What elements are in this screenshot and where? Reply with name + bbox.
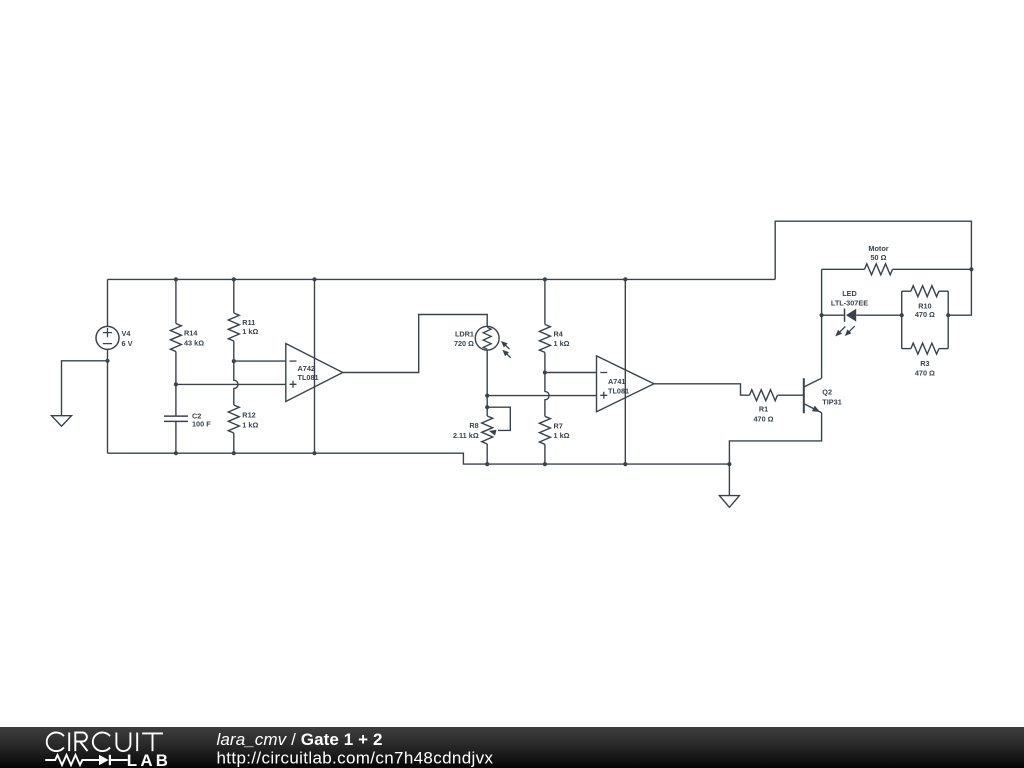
wire A742 supply [314, 279, 316, 453]
svg-text:A741: A741 [608, 377, 625, 386]
resistor R10 [902, 286, 949, 319]
wire V4 top lead [107, 279, 109, 326]
node R4-R7 junction [543, 370, 547, 374]
transistor Q2 [804, 378, 842, 413]
svg-text:470 Ω: 470 Ω [915, 310, 935, 319]
svg-text:LDR1: LDR1 [455, 329, 474, 338]
node V4 minus junction [105, 359, 109, 363]
node A742 V- [312, 451, 316, 455]
voltage source V4 [96, 326, 133, 349]
footer bar [0, 727, 1024, 768]
svg-text:50 Ω: 50 Ω [871, 253, 887, 262]
wire top supply rail [108, 278, 776, 280]
svg-text:R7: R7 [554, 422, 563, 431]
svg-text:lara_cmv / Gate 1 + 2: lara_cmv / Gate 1 + 2 [217, 730, 383, 749]
resistor R1 [750, 390, 804, 424]
svg-text:R3: R3 [920, 359, 929, 368]
svg-text:Q2: Q2 [822, 388, 832, 397]
svg-text:TIP31: TIP31 [822, 397, 841, 406]
wire R11-R12 node to A742 inverting input [234, 360, 286, 362]
resistor R4 [539, 279, 569, 372]
wire A742 output to LDR1 [343, 315, 488, 373]
node motor right junction [969, 267, 973, 271]
motor M1 50 ohm [822, 244, 972, 275]
svg-text:2.11 kΩ: 2.11 kΩ [453, 431, 479, 440]
svg-text:LED: LED [842, 289, 857, 298]
svg-text:1 kΩ: 1 kΩ [242, 327, 258, 336]
wire Q2 collector up to motor branch [821, 269, 823, 378]
svg-text:470 Ω: 470 Ω [915, 368, 935, 377]
wire V4 bottom lead [107, 349, 109, 453]
node LDR1-R8 junction [485, 394, 489, 398]
svg-text:43 kΩ: 43 kΩ [184, 338, 204, 347]
svg-text:R11: R11 [242, 318, 255, 327]
svg-text:V4: V4 [122, 329, 132, 338]
svg-text:A742: A742 [298, 364, 315, 373]
wire Q2 emitter to ground rail [729, 413, 821, 464]
node R14 top [174, 277, 178, 281]
node R7 bottom [543, 462, 547, 466]
CircuitLab logo CIRCUIT wordmark [47, 732, 163, 751]
svg-text:470 Ω: 470 Ω [753, 414, 773, 423]
svg-text:1 kΩ: 1 kΩ [554, 339, 570, 348]
svg-text:720 Ω: 720 Ω [454, 339, 474, 348]
node R8 wiper tap junction [485, 405, 489, 409]
wire parallel network left node [901, 291, 903, 348]
node R8 bottom [485, 462, 489, 466]
LED D1 LTL-307EE [822, 289, 902, 336]
svg-text:1 kΩ: 1 kΩ [554, 431, 570, 440]
resistor R7 [539, 373, 569, 465]
svg-text:TL081: TL081 [298, 373, 319, 382]
node R12 bottom [232, 451, 236, 455]
op-amp A741 [597, 356, 655, 412]
svg-text:TL081: TL081 [608, 387, 629, 396]
node LED anode junction [820, 313, 824, 317]
svg-text:100 F: 100 F [192, 420, 211, 429]
node C2 bottom [174, 451, 178, 455]
wire parallel network right node [947, 291, 949, 348]
wire bottom rail [108, 453, 730, 464]
wire R14-C2 node to A742 non-inverting input [176, 383, 286, 385]
wire top-right jog to motor branch [775, 221, 971, 315]
wire A741 output to R1 [654, 384, 750, 395]
node R11 top [232, 277, 236, 281]
svg-text:R8: R8 [469, 421, 478, 430]
op-amp A742 [286, 344, 343, 402]
node A741 V- [623, 462, 627, 466]
wire LDR1-R8 node to A741 non-inverting input [487, 395, 596, 397]
svg-text:http://circuitlab.com/cn7h48cd: http://circuitlab.com/cn7h48cdndjvx [217, 749, 494, 768]
photoresistor LDR1 [454, 326, 511, 357]
node A742 V+ [312, 277, 316, 281]
svg-text:LTL-307EE: LTL-307EE [831, 298, 868, 307]
wire R4-R7 node to A741 inverting input [545, 372, 597, 374]
potentiometer R8 [453, 407, 510, 464]
node A741 V+ [623, 277, 627, 281]
node emitter-ground junction [727, 462, 731, 466]
resistor R12 [228, 361, 258, 453]
resistor R14 [170, 279, 204, 416]
svg-text:6 V: 6 V [122, 339, 133, 348]
node parallel right [946, 313, 950, 317]
svg-text:Motor: Motor [868, 244, 888, 253]
resistor R11 [228, 279, 258, 361]
CircuitLab logo resistor-diode squiggle [45, 755, 128, 765]
wire LDR1 bottom to R8 [486, 350, 488, 416]
svg-text:LAB: LAB [127, 751, 171, 768]
svg-text:R12: R12 [242, 411, 255, 420]
node R4 top [543, 277, 547, 281]
svg-text:R1: R1 [759, 405, 768, 414]
ground GND1 [52, 416, 72, 427]
svg-text:1 kΩ: 1 kΩ [242, 420, 258, 429]
node R14-C2 junction [174, 382, 178, 386]
resistor R3 [902, 343, 949, 377]
wire to ground GND1 [62, 361, 108, 416]
node parallel left [900, 313, 904, 317]
svg-text:R4: R4 [554, 330, 564, 339]
svg-text:R14: R14 [184, 329, 198, 338]
ground GND2 [719, 464, 739, 507]
wire A741 supply [624, 279, 626, 464]
capacitor C2 [164, 412, 211, 454]
node R11-R12 junction [232, 359, 236, 363]
